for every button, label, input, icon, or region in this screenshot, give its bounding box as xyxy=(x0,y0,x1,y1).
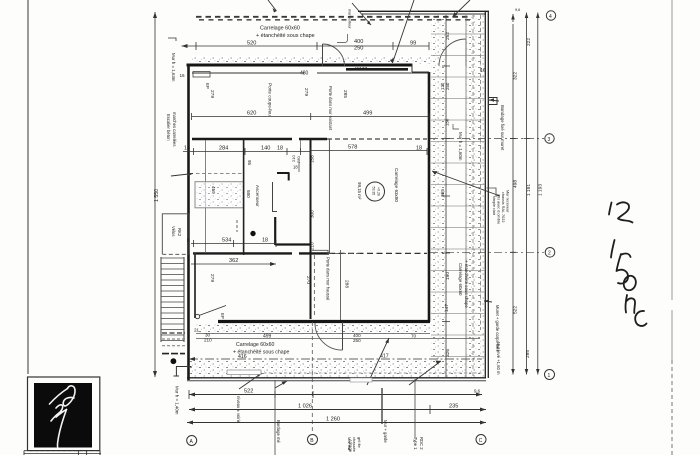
stairs xyxy=(161,257,184,342)
svg-text:285: 285 xyxy=(342,90,348,98)
svg-text:280: 280 xyxy=(296,156,301,163)
axis B wall vertical xyxy=(310,139,312,319)
svg-text:210: 210 xyxy=(310,242,315,250)
svg-text:99,15 m²: 99,15 m² xyxy=(357,182,362,200)
svg-text:Carrelage 60x60: Carrelage 60x60 xyxy=(236,342,274,348)
corridor wall solid + dashed xyxy=(192,138,327,140)
svg-text:18: 18 xyxy=(262,238,268,244)
svg-text:RK2: RK2 xyxy=(177,228,182,237)
svg-text:59,35: 59,35 xyxy=(372,187,376,196)
kitchen dashed rectangle xyxy=(195,182,243,208)
svg-text:18: 18 xyxy=(293,165,298,170)
svg-text:400: 400 xyxy=(354,39,363,45)
svg-text:marches carrelées: marches carrelées xyxy=(172,112,177,146)
svg-text:Virage: Virage xyxy=(348,440,353,453)
svg-text:niveau ± voirie: niveau ± voirie xyxy=(236,396,241,424)
bottom terrace outer double line xyxy=(187,377,486,379)
svg-text:322: 322 xyxy=(513,72,519,80)
svg-text:Mur h = 1,60m: Mur h = 1,60m xyxy=(458,132,463,161)
svg-text:279: 279 xyxy=(209,274,215,282)
svg-text:gris avec d ombre: gris avec d ombre xyxy=(497,194,501,224)
handwriting ~150 m2 xyxy=(609,202,647,326)
scan artifact right vertical line xyxy=(671,0,673,360)
dash-dot axis y=359 xyxy=(189,358,482,360)
dimension line y=151.5 xyxy=(183,151,427,152)
svg-text:522: 522 xyxy=(513,306,519,314)
svg-text:9,6: 9,6 xyxy=(474,389,481,394)
svg-text:140: 140 xyxy=(261,146,270,152)
svg-text:16: 16 xyxy=(180,73,186,78)
left dim x=155 xyxy=(154,12,156,377)
top-left door jamb detail xyxy=(193,72,210,78)
svg-text:Carrelage 60x60: Carrelage 60x60 xyxy=(260,26,300,32)
svg-text:Porte dans mur existant: Porte dans mur existant xyxy=(328,86,333,131)
svg-text:578: 578 xyxy=(348,145,357,151)
main top wall xyxy=(187,64,413,67)
svg-text:1 193: 1 193 xyxy=(538,184,544,196)
svg-text:Mur h = 1,63m: Mur h = 1,63m xyxy=(171,53,176,82)
area circle stamp xyxy=(366,182,385,201)
dimension line y=46 xyxy=(182,42,430,50)
svg-text:Vélos: Vélos xyxy=(171,226,176,236)
svg-text:18: 18 xyxy=(186,238,190,242)
svg-text:16: 16 xyxy=(184,146,190,152)
svg-text:Porte coupe-feu: Porte coupe-feu xyxy=(268,83,273,116)
svg-text:250: 250 xyxy=(354,46,363,52)
svg-text:150: 150 xyxy=(445,118,450,126)
velos box xyxy=(162,214,189,254)
svg-text:95: 95 xyxy=(247,160,252,165)
svg-text:522: 522 xyxy=(244,389,253,395)
leader to stairs xyxy=(171,174,193,177)
svg-text:+9,20: +9,20 xyxy=(377,187,381,196)
svg-text:Bandage fixé sur muret: Bandage fixé sur muret xyxy=(500,105,505,151)
axis circles right xyxy=(546,11,555,20)
svg-text:4: 4 xyxy=(549,14,552,20)
dimension line y=116 xyxy=(192,115,429,117)
svg-text:RDC 2: RDC 2 xyxy=(419,437,424,450)
svg-text:mur porteur: mur porteur xyxy=(348,9,352,29)
stamp xyxy=(28,377,100,451)
svg-text:Mur receveur: Mur receveur xyxy=(506,190,510,213)
bottom axis circles xyxy=(187,436,197,446)
kitchen speckle fill xyxy=(196,182,243,208)
elevator shaft xyxy=(237,140,311,255)
svg-text:EP: EP xyxy=(205,83,210,89)
svg-text:222: 222 xyxy=(526,38,532,46)
porte dans mur hausse dashed door xyxy=(313,255,315,316)
stamp lower table xyxy=(24,450,99,452)
svg-text:70: 70 xyxy=(411,334,417,339)
bottom terrace speckle bands xyxy=(196,324,430,334)
axis B dashed vertical through band xyxy=(311,322,313,432)
svg-text:EP: EP xyxy=(220,313,225,319)
svg-text:279: 279 xyxy=(303,88,309,96)
svg-text:499: 499 xyxy=(363,111,372,117)
svg-text:620: 620 xyxy=(247,111,256,117)
right outer wall double xyxy=(484,11,486,378)
left wall lower thick xyxy=(194,253,196,318)
bottom inner wall xyxy=(218,320,430,323)
bottom terrace details xyxy=(196,333,430,335)
svg-text:99: 99 xyxy=(410,41,416,47)
svg-text:simple clair: simple clair xyxy=(492,196,496,216)
svg-text:3: 3 xyxy=(548,137,551,143)
svg-text:235: 235 xyxy=(449,404,458,410)
svg-text:Carrelage 60x60: Carrelage 60x60 xyxy=(458,263,463,296)
mid wall y=253 xyxy=(193,252,329,254)
svg-text:Carrelage 63x80: Carrelage 63x80 xyxy=(394,168,399,202)
svg-text:520: 520 xyxy=(247,41,256,47)
bottom dims xyxy=(189,394,482,396)
svg-text:Mur + garde: Mur + garde xyxy=(383,420,388,443)
svg-text:gril fle: gril fle xyxy=(357,437,362,448)
leader arrows from top xyxy=(268,0,277,11)
top terrace speckle band above wall xyxy=(192,56,432,64)
svg-text:Mur levé +1,60 m: Mur levé +1,60 m xyxy=(496,342,501,375)
svg-text:210: 210 xyxy=(204,338,212,343)
svg-text:W137: W137 xyxy=(355,66,367,71)
axis dash-dot lines to circles xyxy=(430,138,544,140)
right strip tile joints xyxy=(431,34,485,357)
svg-text:9,6: 9,6 xyxy=(515,8,520,12)
svg-text:+ étanchéité sous chape: + étanchéité sous chape xyxy=(256,33,315,39)
small bracket top-left xyxy=(168,38,176,41)
dim 534 line y=243.5 xyxy=(191,243,276,245)
svg-text:252: 252 xyxy=(445,32,451,40)
svg-text:295: 295 xyxy=(525,350,531,358)
EP drain bottom-left xyxy=(195,314,199,318)
svg-text:Mur h = 1,40m: Mur h = 1,40m xyxy=(175,386,180,415)
svg-text:Escalier béton: Escalier béton xyxy=(166,114,171,141)
right strip speckle xyxy=(431,15,446,377)
svg-text:326: 326 xyxy=(445,349,451,357)
svg-text:250: 250 xyxy=(353,338,361,343)
top railing double dashed edge xyxy=(196,16,470,18)
svg-text:+ étanchéité sous chape: + étanchéité sous chape xyxy=(464,260,469,308)
svg-text:18: 18 xyxy=(277,146,283,152)
scan artifact left vertical line xyxy=(27,0,29,374)
black dot in shaft xyxy=(250,231,255,236)
svg-text:1: 1 xyxy=(548,373,551,379)
svg-text:300: 300 xyxy=(310,210,315,218)
left outer wall xyxy=(187,64,190,381)
svg-text:1 550: 1 550 xyxy=(154,189,160,202)
leaders bottom band xyxy=(239,338,441,389)
svg-text:534: 534 xyxy=(222,238,231,244)
svg-text:18: 18 xyxy=(416,146,422,152)
right strip verticals xyxy=(465,15,467,377)
right vertical dims xyxy=(512,14,514,26)
svg-text:365: 365 xyxy=(440,189,446,197)
svg-text:480: 480 xyxy=(300,71,309,77)
right strip dim line x=446 xyxy=(445,15,447,377)
svg-text:Porte dans mur haussé: Porte dans mur haussé xyxy=(326,257,331,301)
inner-right wall xyxy=(428,72,431,322)
white patch rects xyxy=(227,370,261,375)
leader to circle xyxy=(432,171,500,196)
top door arc 2 xyxy=(439,39,466,66)
svg-text:158: 158 xyxy=(310,155,315,163)
dim 362 line y=264 xyxy=(191,263,276,265)
svg-text:Ascenseur: Ascenseur xyxy=(255,185,260,207)
interior thin verticals xyxy=(204,140,206,253)
lintel dark band xyxy=(346,68,408,71)
svg-text:C: C xyxy=(479,438,483,444)
svg-text:2: 2 xyxy=(548,251,551,257)
svg-text:21: 21 xyxy=(194,328,200,333)
svg-text:1 191: 1 191 xyxy=(526,184,532,196)
svg-text:Bardage mé: Bardage mé xyxy=(276,420,281,443)
wall x=329 xyxy=(328,139,330,253)
svg-text:498: 498 xyxy=(513,180,519,188)
stair lower landing xyxy=(162,332,185,334)
svg-text:288: 288 xyxy=(344,280,350,288)
svg-text:147: 147 xyxy=(444,304,450,312)
top door arc 1 xyxy=(322,44,324,66)
bottom door swing xyxy=(342,322,344,350)
svg-text:1 026: 1 026 xyxy=(298,404,312,410)
svg-text:190: 190 xyxy=(445,272,451,280)
right wall jog xyxy=(489,98,497,105)
svg-text:284: 284 xyxy=(219,146,228,152)
svg-text:459: 459 xyxy=(211,186,216,194)
svg-text:1 260: 1 260 xyxy=(326,417,340,423)
svg-text:362: 362 xyxy=(229,258,238,264)
svg-text:chassis RAL 7022: chassis RAL 7022 xyxy=(501,192,505,222)
top outer solid line xyxy=(358,10,489,12)
svg-text:Type 1: Type 1 xyxy=(413,437,418,450)
top wall inner face with door gap xyxy=(192,72,429,74)
svg-text:580: 580 xyxy=(246,190,251,198)
svg-text:279: 279 xyxy=(209,90,215,98)
svg-text:250: 250 xyxy=(445,82,450,90)
svg-text:499: 499 xyxy=(263,334,272,340)
tile joint dashed row in band xyxy=(264,372,482,374)
svg-text:270: 270 xyxy=(305,276,311,284)
